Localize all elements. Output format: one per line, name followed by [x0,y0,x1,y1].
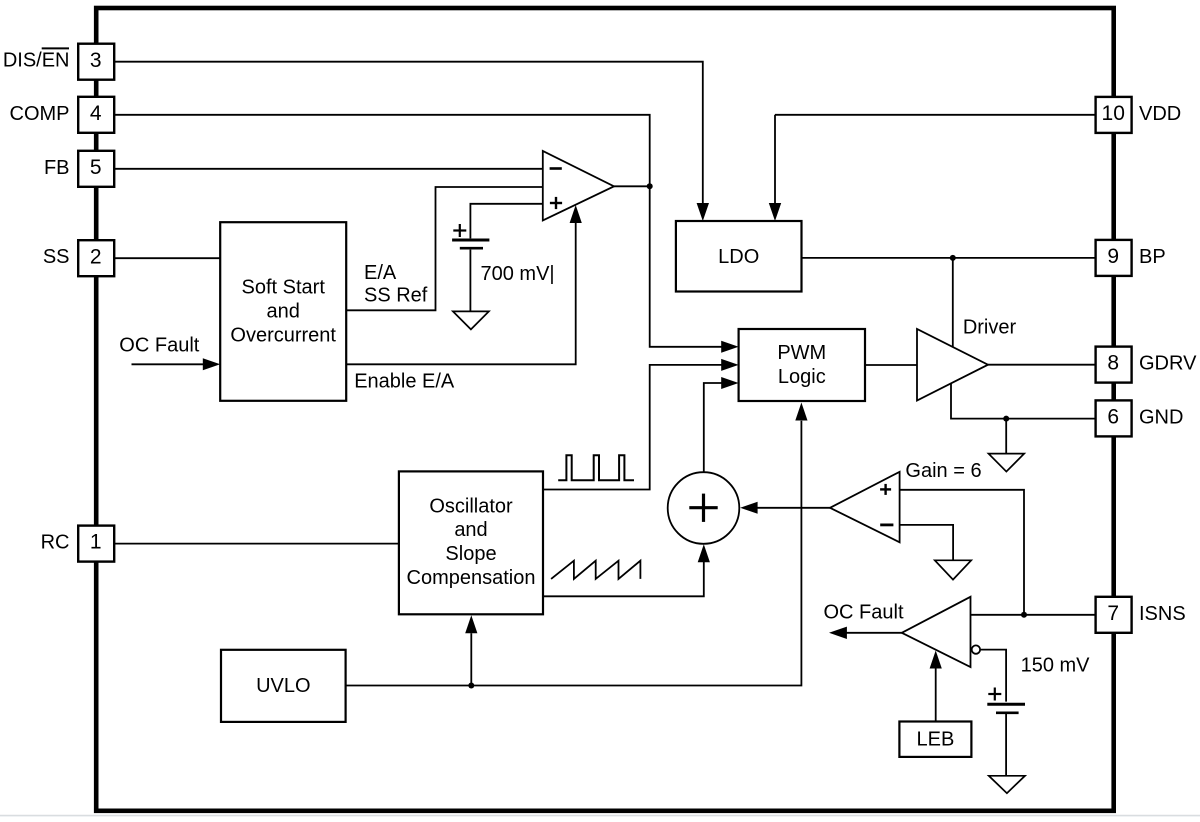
svg-text:DIS/EN: DIS/EN [3,50,70,72]
svg-text:and: and [454,519,487,541]
svg-text:LDO: LDO [718,246,759,268]
svg-text:GDRV: GDRV [1139,353,1197,375]
svg-text:4: 4 [90,102,102,125]
svg-text:150 mV: 150 mV [1021,655,1091,677]
svg-text:9: 9 [1107,245,1119,268]
svg-text:UVLO: UVLO [256,675,310,697]
svg-text:5: 5 [90,156,102,179]
svg-text:Enable E/A: Enable E/A [354,371,455,393]
svg-text:OC Fault: OC Fault [119,334,199,356]
svg-text:VDD: VDD [1139,103,1181,125]
svg-text:OC Fault: OC Fault [823,602,903,624]
svg-text:3: 3 [90,49,102,72]
svg-text:Overcurrent: Overcurrent [230,325,336,347]
svg-text:6: 6 [1107,406,1119,429]
svg-text:BP: BP [1139,246,1166,268]
svg-text:7: 7 [1107,602,1119,625]
svg-text:Oscillator: Oscillator [429,495,513,517]
svg-text:FB: FB [44,157,70,179]
svg-text:and: and [267,301,300,323]
svg-text:SS: SS [43,246,70,268]
svg-text:Slope: Slope [445,543,496,565]
svg-text:ISNS: ISNS [1139,603,1186,625]
svg-text:E/A: E/A [364,262,397,284]
svg-text:COMP: COMP [10,103,70,125]
svg-text:Gain = 6: Gain = 6 [905,460,981,482]
svg-text:GND: GND [1139,406,1183,428]
svg-text:10: 10 [1102,102,1125,125]
svg-text:Compensation: Compensation [407,567,536,589]
svg-text:1: 1 [90,531,102,554]
svg-text:LEB: LEB [916,729,954,751]
svg-text:SS Ref: SS Ref [364,285,428,307]
svg-text:PWM: PWM [777,342,826,364]
svg-text:Soft Start: Soft Start [242,277,326,299]
svg-text:2: 2 [90,245,102,268]
svg-text:RC: RC [41,532,70,554]
svg-text:Driver: Driver [963,317,1017,339]
svg-text:Logic: Logic [778,366,826,388]
svg-text:8: 8 [1107,352,1119,375]
svg-text:700 mV|: 700 mV| [481,263,555,285]
